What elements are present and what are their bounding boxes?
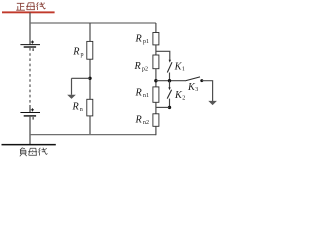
wire: node to left earth <box>72 77 91 79</box>
battery GB2 plus sign <box>31 108 34 111</box>
positive bus label 正母线 <box>16 2 45 10</box>
battery GB2 short thick plate <box>24 115 36 117</box>
wire: battery GB2 to negative bus <box>29 117 31 145</box>
earth arrow left: head <box>67 95 76 99</box>
earth arrow right: head <box>208 101 217 105</box>
svg-text:n2: n2 <box>143 120 149 126</box>
resistor Rp2 <box>153 55 159 69</box>
battery GB1 plus sign <box>31 41 34 44</box>
wire: K1 to center node <box>169 73 171 81</box>
wire: Rn2 to bottom wire <box>155 126 157 135</box>
resistor Rn2 <box>153 114 159 127</box>
wire: solid into battery GB2 <box>29 105 31 112</box>
svg-text:p: p <box>81 52 84 58</box>
node: K column center <box>168 79 171 82</box>
resistor Rp <box>87 41 93 59</box>
switch K2 blade <box>167 90 171 99</box>
battery GB1 short thick plate <box>24 46 36 48</box>
wire: K2 junction to right column <box>156 106 170 108</box>
resistor Rn1 <box>153 87 159 102</box>
battery GB2 minus tick <box>32 117 34 120</box>
switch K3 contact dot <box>200 79 203 82</box>
svg-text:3: 3 <box>195 87 198 93</box>
wire: battery drop from positive bus <box>29 13 31 45</box>
wire: K3 to right earth <box>202 81 213 101</box>
switch K1 contact arrow <box>169 60 171 63</box>
resistor Rn <box>87 99 93 116</box>
svg-text:p1: p1 <box>143 39 149 45</box>
wire: branch to K1 <box>156 51 170 60</box>
switch K3 blade <box>185 77 200 81</box>
svg-text:R: R <box>135 115 143 126</box>
wire: right column top corner <box>155 23 157 33</box>
switch K1 blade <box>167 62 172 72</box>
wire: Rn to bottom wire <box>89 116 91 135</box>
svg-text:R: R <box>72 47 80 58</box>
svg-text:1: 1 <box>182 67 185 73</box>
svg-text:R: R <box>72 101 80 112</box>
battery GB2 long plate <box>20 112 40 114</box>
resistor Rp1 <box>153 33 159 45</box>
node: middle column junction <box>88 77 91 80</box>
svg-text:2: 2 <box>182 95 185 101</box>
switch K2 contact arrow <box>168 87 170 90</box>
svg-text:R: R <box>134 61 142 72</box>
negative bus line (black) <box>2 144 56 146</box>
svg-text:n: n <box>80 107 83 113</box>
wire: Rp to node <box>89 59 91 99</box>
svg-text:n1: n1 <box>143 93 149 99</box>
negative bus label 负母线 <box>20 148 48 157</box>
wire: top horizontal <box>30 22 156 24</box>
wire: Rp1 to Rp2 with K1 branch <box>155 45 157 55</box>
node: K2 bottom junction <box>168 106 171 109</box>
positive bus line (red) <box>2 11 55 13</box>
wire: K2 bottom <box>169 99 171 108</box>
wire: center horizontal to K3 pivot <box>156 80 185 82</box>
wire: middle column top <box>89 23 91 41</box>
svg-text:p2: p2 <box>142 67 148 73</box>
wire: Rp2 down to center wire <box>155 69 157 87</box>
earth arrow left: stem <box>71 78 73 95</box>
wire: dashed battery string <box>29 48 31 105</box>
battery GB1 minus tick <box>32 48 34 51</box>
wire: bottom horizontal <box>30 134 156 136</box>
svg-text:R: R <box>135 33 143 44</box>
battery GB1 long plate <box>20 44 40 46</box>
wire: Rn1 to Rn2 <box>155 102 157 114</box>
wire: K2 top <box>169 81 171 88</box>
svg-text:R: R <box>135 87 143 98</box>
node: right column center <box>154 79 157 82</box>
